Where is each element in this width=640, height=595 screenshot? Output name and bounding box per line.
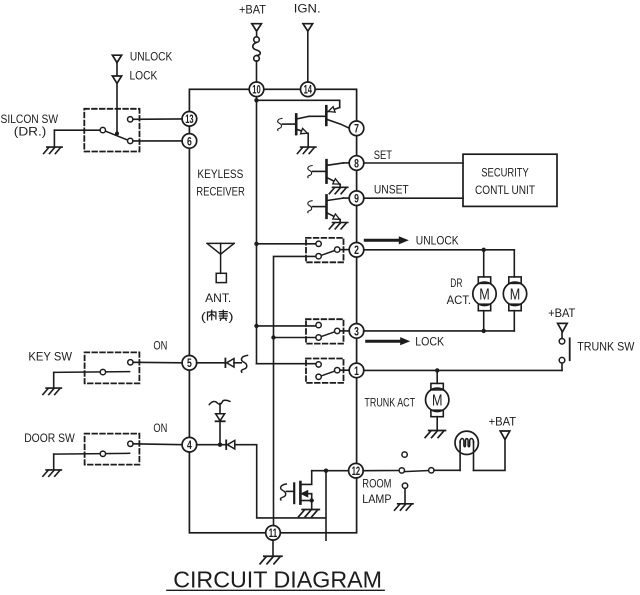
svg-text:+BAT: +BAT <box>548 306 576 320</box>
svg-text:12: 12 <box>352 464 361 478</box>
door switch SW3 (dashed box) <box>54 434 140 465</box>
ground (pin 11) <box>260 556 282 564</box>
pin 2 <box>349 243 364 258</box>
label DOOR SW <box>24 431 75 445</box>
wire <box>312 470 349 472</box>
ground (room lamp sw) <box>395 504 414 510</box>
wire <box>256 31 258 37</box>
pin 10 <box>249 82 264 97</box>
ground (door sw) <box>43 470 62 476</box>
svg-text:TRUNK ACT: TRUNK ACT <box>364 397 415 409</box>
+BAT label (top feed) <box>239 2 266 16</box>
svg-text:DOOR SW: DOOR SW <box>24 431 75 445</box>
wire <box>197 444 227 446</box>
wire LOCK (pin 3 to actuators) <box>364 330 515 332</box>
label UNSET <box>374 183 409 197</box>
pin 14 <box>301 82 316 97</box>
svg-text:9: 9 <box>354 192 359 206</box>
node (pin 4 junction) <box>218 443 222 447</box>
svg-text:LOCK: LOCK <box>415 335 445 349</box>
svg-text:2: 2 <box>354 243 359 257</box>
label KEY SW <box>28 350 72 364</box>
trunk switch SW5 <box>559 338 570 363</box>
pin 13 <box>182 112 197 127</box>
svg-text:13: 13 <box>185 112 194 126</box>
svg-text:SET: SET <box>374 148 393 162</box>
+BAT feed arrow <box>252 24 262 32</box>
node (bus to relay RL1) <box>254 242 258 246</box>
motor M2 (DR actuator right) <box>503 277 526 311</box>
svg-text:(DR.): (DR.) <box>14 125 47 139</box>
wire <box>116 63 118 76</box>
wire <box>257 100 340 107</box>
transistor Q3 (NPN, SET driver) <box>308 160 350 187</box>
pin 5 <box>182 356 197 371</box>
wire <box>272 540 274 556</box>
svg-text:): ) <box>228 309 233 323</box>
node (trunk act junction) <box>435 368 439 372</box>
ground (trunk act) <box>425 431 445 438</box>
wire <box>116 83 118 132</box>
label LOCK (silcon sw) <box>130 69 158 83</box>
svg-text:4: 4 <box>187 438 192 452</box>
label ON (door sw) <box>153 421 167 435</box>
svg-text:6: 6 <box>187 134 192 148</box>
wire <box>257 325 316 327</box>
node (lamp drive junction) <box>324 469 328 473</box>
label ANT. <box>205 291 231 305</box>
room lamp switch SW4 <box>399 452 434 489</box>
ground (MOSFET source) <box>299 510 320 517</box>
wire +BAT bus <box>256 100 258 363</box>
wire <box>325 471 327 541</box>
wire <box>234 362 241 364</box>
wire <box>133 140 182 142</box>
label DR ACT. <box>447 278 471 307</box>
transistor Q1 (PNP at pin 7) <box>309 106 349 128</box>
transistor Q2 (NPN, base squiggle) <box>278 114 309 146</box>
keyless receiver box outline <box>189 89 356 533</box>
wire <box>513 250 515 277</box>
wire <box>53 130 55 146</box>
wire <box>256 93 258 100</box>
svg-text:ROOM: ROOM <box>362 476 391 490</box>
svg-text:KEY SW: KEY SW <box>28 350 72 364</box>
svg-text:ANT.: ANT. <box>205 291 231 305</box>
svg-text:14: 14 <box>304 83 313 97</box>
diode D1 (pin 5) <box>225 359 234 368</box>
diode D2 (pin 4) <box>226 440 235 449</box>
svg-text:5: 5 <box>187 356 192 370</box>
IGN feed arrow <box>303 24 313 32</box>
node (bus to relay RL2 lower) <box>271 335 275 339</box>
pin 9 <box>349 191 364 206</box>
relay RL3 contacts (trunk) <box>306 359 349 383</box>
+BAT label (trunk) <box>548 306 576 320</box>
ground (key sw) <box>43 388 62 394</box>
pin 12 <box>349 463 364 478</box>
wire <box>235 445 326 518</box>
svg-text:UNSET: UNSET <box>374 183 409 197</box>
node (lock wire junction) <box>482 329 486 333</box>
svg-text:LAMP: LAMP <box>362 492 391 506</box>
wire <box>483 250 485 277</box>
silcon switch SW1 (in dashed box) <box>84 109 139 152</box>
pin 3 <box>349 324 364 339</box>
wire <box>474 440 506 471</box>
label SET <box>374 148 393 162</box>
svg-text:M: M <box>479 286 490 303</box>
arrow LOCK <box>367 337 411 345</box>
svg-text:CIRCUIT DIAGRAM: CIRCUIT DIAGRAM <box>173 567 382 593</box>
wire <box>257 363 316 365</box>
label KEYLESS RECEIVER <box>196 167 245 198</box>
svg-text:RECEIVER: RECEIVER <box>196 185 245 199</box>
wire <box>483 311 485 331</box>
IGN. label (top feed) <box>294 2 321 16</box>
fuse F1 <box>253 37 261 61</box>
wire <box>363 470 399 472</box>
svg-text:1: 1 <box>354 364 359 378</box>
label SILCON SW <box>1 112 59 138</box>
relay RL2 contacts (lock) <box>306 319 349 343</box>
squiggle (open end above zener) <box>209 400 230 404</box>
svg-text:CONTL UNIT: CONTL UNIT <box>475 183 535 197</box>
wire <box>404 488 406 503</box>
wire <box>53 454 55 469</box>
motor M1 (DR actuator left) <box>473 277 496 311</box>
svg-text:(: ( <box>201 309 206 323</box>
wire UNSET to security unit <box>364 197 463 199</box>
svg-text:SECURITY: SECURITY <box>481 165 529 179</box>
svg-text:IGN.: IGN. <box>294 2 321 16</box>
antenna ANT. <box>207 243 234 282</box>
wire <box>561 363 563 371</box>
wire SET to security unit <box>364 162 463 164</box>
pin 11 <box>266 526 281 541</box>
svg-text:ON: ON <box>153 338 167 352</box>
svg-text:8: 8 <box>354 156 359 170</box>
node (unlock wire junction) <box>482 248 486 252</box>
wire <box>53 372 55 387</box>
label TRUNK SW <box>577 342 634 354</box>
label LOCK <box>415 335 445 349</box>
wire <box>54 129 100 131</box>
svg-text:M: M <box>432 392 443 409</box>
wire <box>197 362 226 364</box>
pin 7 <box>349 121 364 136</box>
svg-text:UNLOCK: UNLOCK <box>416 233 459 247</box>
wire <box>257 243 316 245</box>
+BAT feed arrow (trunk) <box>558 323 568 332</box>
svg-text:M: M <box>510 286 521 303</box>
svg-text:ACT.: ACT. <box>447 295 471 307</box>
svg-text:UNLOCK: UNLOCK <box>130 50 173 64</box>
wire <box>274 337 316 339</box>
wire <box>307 31 309 82</box>
label ON (key sw) <box>153 338 167 352</box>
wire <box>436 370 438 383</box>
svg-text:ON: ON <box>153 421 167 435</box>
label UNLOCK (silcon sw) <box>130 50 173 64</box>
squiggle (open end, pin 5 line) <box>241 355 247 372</box>
svg-text:KEYLESS: KEYLESS <box>197 167 243 181</box>
title CIRCUIT DIAGRAM <box>167 567 384 593</box>
MOSFET Q5 (room lamp driver) <box>280 471 313 509</box>
lamp (room lamp bulb) <box>455 431 478 470</box>
key switch SW2 (dashed box) <box>54 352 140 383</box>
label UNLOCK <box>416 233 459 247</box>
svg-text:DR: DR <box>450 278 462 290</box>
+BAT feed arrow (room lamp) <box>500 431 510 440</box>
relay RL1 contacts (unlock) <box>306 238 349 262</box>
svg-text:+BAT: +BAT <box>489 415 517 429</box>
svg-text:LOCK: LOCK <box>130 69 158 83</box>
wire <box>434 469 460 471</box>
wire <box>436 417 438 430</box>
ground (Q3 emitter) <box>329 187 348 193</box>
label (built-in) kanji <box>201 309 234 323</box>
+BAT label (room lamp) <box>489 415 517 429</box>
pin 6 <box>182 134 197 149</box>
svg-text:10: 10 <box>252 83 261 97</box>
lock direction arrow <box>112 76 121 83</box>
wire common bus <box>274 256 316 525</box>
wire <box>133 118 182 120</box>
node (bus to relay RL2) <box>254 324 258 328</box>
arrow UNLOCK <box>365 236 409 244</box>
wire UNLOCK (pin 2 to actuators) <box>364 249 515 251</box>
ground (silcon sw) <box>44 147 63 153</box>
unlock direction arrow <box>112 55 121 62</box>
wire <box>133 443 182 446</box>
ground (Q4 emitter) <box>329 223 348 229</box>
label ROOM LAMP <box>362 476 391 506</box>
label TRUNK ACT <box>364 397 415 409</box>
security contl unit box <box>463 154 557 206</box>
wire <box>133 361 182 364</box>
wire <box>256 61 258 82</box>
diode D3 (zener clamp above pin 4) <box>216 404 225 443</box>
transistor Q4 (NPN, UNSET driver) <box>308 195 350 222</box>
pin 1 <box>349 363 364 378</box>
pin 4 <box>182 437 197 452</box>
motor M3 (trunk actuator) <box>426 383 449 416</box>
svg-text:+BAT: +BAT <box>239 2 266 16</box>
svg-text:3: 3 <box>354 324 359 338</box>
ground (Q2 emitter) <box>297 147 316 153</box>
svg-text:7: 7 <box>354 122 359 136</box>
wire <box>513 311 515 331</box>
svg-text:11: 11 <box>269 526 278 540</box>
svg-text:TRUNK SW: TRUNK SW <box>577 342 634 354</box>
node +BAT internal rail junction <box>254 98 258 102</box>
pin 8 <box>349 156 364 171</box>
wire <box>561 332 563 339</box>
wire (pin 1 to trunk switch) <box>364 369 562 371</box>
